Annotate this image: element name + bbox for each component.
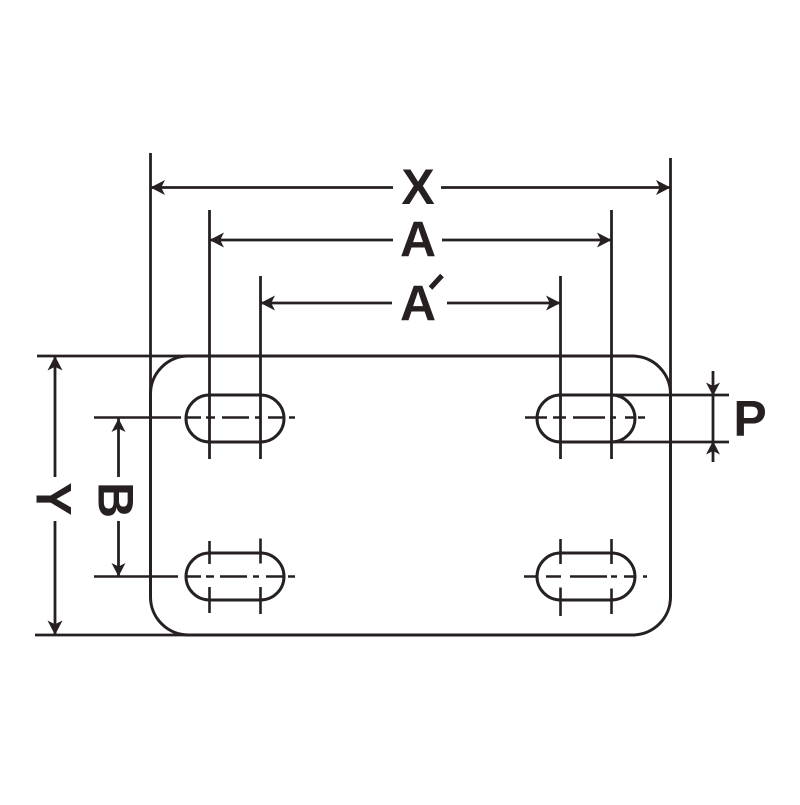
hole bottom-right bbox=[537, 553, 635, 600]
arrowhead X left bbox=[151, 180, 166, 195]
svg-text:B: B bbox=[88, 482, 144, 518]
center mark bottom-right hole right bbox=[610, 539, 613, 614]
dimension line P bbox=[712, 371, 715, 462]
extension line A left bbox=[208, 210, 211, 459]
svg-text:P: P bbox=[733, 391, 766, 447]
dimension line A-prime bbox=[261, 302, 393, 305]
arrowhead B top bbox=[112, 419, 126, 433]
extension line A-prime left bbox=[259, 276, 262, 459]
center mark bottom-right hole left bbox=[559, 539, 562, 616]
arrowhead B bottom bbox=[112, 563, 126, 577]
centerline bottom-left hole bbox=[94, 575, 295, 578]
svg-text:A: A bbox=[400, 212, 436, 268]
svg-text:Y: Y bbox=[26, 482, 82, 515]
center mark bottom-left hole left bbox=[208, 541, 211, 613]
arrowhead A-prime right bbox=[546, 296, 561, 311]
arrowhead X right bbox=[656, 180, 671, 195]
hole top-right bbox=[537, 395, 635, 442]
extension line P bottom bbox=[612, 441, 730, 444]
extension line A right bbox=[610, 210, 613, 459]
arrowhead A-prime left bbox=[261, 296, 276, 311]
svg-text:X: X bbox=[401, 159, 434, 215]
dimension line Y bbox=[54, 356, 57, 477]
arrowhead P bottom (points up) bbox=[706, 441, 720, 455]
centerline top-left hole bbox=[94, 416, 295, 419]
dimension line B bbox=[117, 419, 120, 478]
dimension line X bbox=[151, 186, 394, 189]
arrowhead P top (points down) bbox=[706, 383, 720, 397]
extension line Y top bbox=[37, 355, 300, 358]
extension line X left bbox=[149, 153, 152, 595]
plate outline bbox=[151, 356, 671, 635]
dimension line A bbox=[210, 239, 394, 242]
extension line A-prime right bbox=[559, 276, 562, 459]
arrowhead Y top bbox=[48, 356, 63, 371]
hole bottom-left bbox=[186, 553, 284, 600]
extension line P top bbox=[612, 394, 730, 397]
extension line X right bbox=[669, 158, 672, 595]
arrowhead A right bbox=[597, 233, 612, 248]
arrowhead A left bbox=[210, 233, 225, 248]
center mark bottom-left hole right bbox=[259, 539, 262, 615]
svg-text:A: A bbox=[400, 276, 436, 332]
extension line Y bottom bbox=[35, 634, 300, 637]
hole top-left bbox=[186, 395, 284, 442]
arrowhead Y bottom bbox=[48, 621, 63, 636]
centerline top-right hole bbox=[525, 416, 645, 419]
centerline bottom-right hole bbox=[524, 575, 647, 578]
